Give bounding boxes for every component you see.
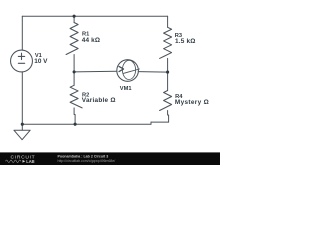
svg-text:http://circuitlab.com/c/gqwp49: http://circuitlab.com/c/gqwp496m68e/ bbox=[58, 159, 116, 163]
wire R2 bottom lead with jog bbox=[74, 108, 75, 124]
node left bridge junction bbox=[73, 70, 76, 73]
resistor R2 bbox=[70, 85, 82, 108]
ground bbox=[14, 130, 30, 140]
svg-text:10 V: 10 V bbox=[34, 58, 48, 65]
wire top rail bbox=[22, 15, 167, 17]
wire R4 top lead bbox=[167, 72, 169, 90]
wire VM1 left bbox=[74, 70, 117, 73]
svg-text:LAB: LAB bbox=[26, 159, 34, 164]
voltage source V1 bbox=[11, 50, 33, 72]
wire R3 top lead bbox=[167, 16, 169, 27]
svg-text:PoonamSaha : Lab 2 Circuit 3: PoonamSaha : Lab 2 Circuit 3 bbox=[58, 154, 109, 158]
svg-text:1.5 kΩ: 1.5 kΩ bbox=[175, 38, 196, 45]
wire R4 bottom lead with jog bbox=[168, 111, 169, 123]
svg-text:VM1: VM1 bbox=[120, 86, 132, 92]
wire bottom jog bbox=[150, 122, 152, 124]
resistor R3 bbox=[160, 27, 172, 58]
node R1 top junction bbox=[73, 15, 76, 18]
svg-text:Variable Ω: Variable Ω bbox=[82, 97, 116, 104]
resistor R4 bbox=[160, 91, 172, 111]
wire R3 bottom lead bbox=[167, 58, 169, 72]
circuitlab logo arrow bbox=[23, 160, 26, 163]
footer bar bbox=[0, 152, 220, 165]
wire ground stub bbox=[21, 124, 23, 130]
wire V1 bottom lead bbox=[21, 72, 23, 124]
wire R1 bottom lead bbox=[73, 55, 75, 72]
wire bottom rail bbox=[22, 123, 151, 125]
circuitlab logo waveform bbox=[6, 160, 21, 163]
node right bridge junction bbox=[166, 71, 169, 74]
node ground junction bbox=[21, 123, 24, 126]
wire R1 top lead bbox=[73, 16, 75, 22]
node R2 bottom junction bbox=[74, 123, 77, 126]
wire R2 top lead bbox=[73, 72, 75, 85]
svg-text:Mystery Ω: Mystery Ω bbox=[175, 99, 209, 106]
wire VM1 right bbox=[138, 71, 167, 74]
svg-text:44 kΩ: 44 kΩ bbox=[82, 37, 101, 44]
voltmeter VM1 bbox=[117, 60, 140, 82]
resistor R1 bbox=[66, 23, 78, 55]
wire bottom right segment bbox=[151, 121, 169, 123]
wire V1 top lead bbox=[21, 16, 23, 50]
